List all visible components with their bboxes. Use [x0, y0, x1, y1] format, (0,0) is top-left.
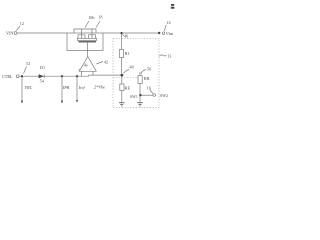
svg-text:18: 18 — [99, 16, 103, 20]
wire — [103, 32, 159, 34]
junction dot at Vbat wire — [120, 32, 122, 34]
dual-FET package U1 lid — [74, 29, 96, 33]
svg-text:13: 13 — [167, 54, 171, 59]
arrow Iref — [76, 100, 78, 103]
wire — [139, 84, 141, 103]
node 40 leader — [124, 70, 130, 74]
FET die body — [79, 41, 97, 43]
junction dot CTRL — [21, 75, 23, 77]
FET clip bar right — [89, 35, 96, 39]
op-amp input lead - — [92, 71, 94, 75]
wire — [121, 91, 123, 103]
terminal Vbat — [162, 32, 165, 35]
svg-text:52: 52 — [26, 61, 30, 66]
FET die plate — [78, 38, 97, 40]
svg-text:Av: Av — [83, 62, 89, 67]
ground right — [137, 102, 143, 104]
arrow IPB — [61, 101, 63, 104]
op-amp output wire — [87, 51, 89, 57]
dual-FET package U1 body — [67, 33, 103, 51]
terminal VIN — [14, 32, 17, 35]
svg-text:RE: RE — [125, 85, 131, 90]
wire VRL branch — [21, 76, 23, 101]
wire Iref branch — [76, 76, 78, 100]
resistor R1 — [119, 50, 123, 58]
svg-text:VIN: VIN — [6, 31, 13, 36]
node 52 leader — [24, 67, 27, 74]
wire — [121, 58, 123, 74]
junction dot node 40 — [121, 74, 124, 77]
svg-text:14: 14 — [166, 20, 171, 25]
inner dashed boundary — [113, 77, 139, 79]
svg-text:46: 46 — [124, 34, 128, 39]
junction dot SW1 — [139, 94, 141, 96]
wire — [17, 32, 67, 34]
svg-text:Vbat: Vbat — [166, 32, 174, 36]
svg-text:16: 16 — [147, 85, 151, 90]
sheet mark — [171, 4, 174, 6]
FET gate lead — [87, 43, 89, 51]
junction dot Iref — [76, 75, 78, 77]
FET clip bar left — [78, 35, 85, 39]
boundary dashed box 13 — [113, 39, 159, 108]
svg-text:Iref: Iref — [78, 85, 86, 90]
resistor RB leader — [141, 70, 146, 75]
svg-text:54: 54 — [40, 79, 45, 84]
wire — [139, 72, 141, 76]
diode D1 cathode bar — [43, 74, 45, 78]
FET lead left — [81, 29, 83, 38]
wire — [121, 33, 123, 50]
svg-text:VRL: VRL — [25, 85, 33, 90]
pin 18 leader — [96, 21, 100, 28]
FET lead right — [91, 29, 93, 38]
wire — [121, 76, 123, 85]
svg-text:42: 42 — [104, 60, 108, 65]
terminal CTRL — [16, 75, 19, 78]
terminal SW2 — [153, 94, 156, 97]
wire jog — [88, 75, 90, 76]
op-amp leader 42 — [97, 62, 104, 65]
arrow VRL — [21, 101, 23, 104]
op-amp input lead + — [81, 71, 83, 76]
svg-text:IPB: IPB — [62, 85, 70, 90]
svg-text:40: 40 — [130, 64, 134, 69]
node 13 leader — [159, 55, 166, 56]
junction dot IPB — [61, 75, 63, 77]
wire IPB branch — [61, 76, 63, 101]
pin 16 leader — [85, 21, 89, 28]
svg-text:SW1: SW1 — [130, 95, 138, 99]
svg-text:R1: R1 — [125, 51, 130, 56]
pad dot at boundary — [158, 32, 160, 34]
node 16 leader — [150, 90, 153, 94]
svg-text:RB: RB — [144, 76, 150, 81]
resistor RE — [120, 84, 124, 91]
op-amp A1 — [79, 57, 96, 72]
resistor RB — [138, 76, 142, 84]
svg-text:56: 56 — [147, 67, 151, 72]
node 46 leader — [122, 34, 124, 36]
wire node SW1 to SW2 — [140, 94, 153, 96]
node 14 leader — [164, 25, 166, 31]
svg-text:SW2: SW2 — [160, 93, 168, 98]
svg-text:2*Vbe: 2*Vbe — [94, 85, 106, 90]
svg-text:D1: D1 — [40, 65, 45, 70]
node 12 leader — [17, 26, 21, 31]
svg-text:12: 12 — [20, 21, 24, 26]
svg-text:−: − — [89, 67, 92, 72]
ground left — [119, 102, 125, 104]
wire — [89, 74, 122, 76]
svg-text:16b: 16b — [88, 15, 94, 20]
diode D1 — [39, 74, 44, 78]
svg-text:CTRL: CTRL — [2, 74, 13, 79]
wire bus — [19, 75, 89, 77]
